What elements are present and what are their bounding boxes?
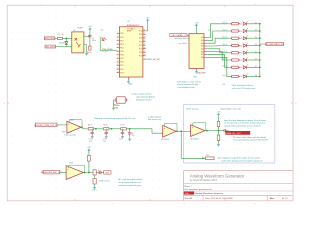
svg-text:high impedance copy of the out: high impedance copy of the output for me… [218, 157, 260, 160]
capacitor C5v [128, 131, 131, 135]
svg-text:D3: D3 [105, 39, 107, 41]
wire R6 to R7 [109, 128, 120, 130]
svg-text:26: 26 [144, 37, 146, 39]
svg-text:filter cleans it up: filter cleans it up [148, 118, 161, 121]
svg-text:so the op-amp can drive the ou: so the op-amp can drive the output rail-… [224, 122, 265, 125]
svg-text:1N4148: 1N4148 [59, 42, 65, 44]
svg-text:Q3_D: Q3_D [222, 51, 227, 53]
title block outline [184, 170, 293, 172]
svg-text:24: 24 [144, 44, 146, 46]
wire R5 to R6 [94, 128, 104, 130]
svg-text:PWM_INPUT: PWM_INPUT [44, 38, 56, 40]
svg-text:PD4: PD4 [120, 47, 124, 49]
wire to U2 pin [100, 46, 117, 51]
svg-text:PD2: PD2 [120, 69, 124, 71]
svg-text:A8: A8 [201, 56, 203, 59]
svg-text:Rev:: Rev: [270, 198, 275, 200]
svg-text:PD5: PD5 [120, 51, 124, 53]
capacitor C6 [98, 171, 102, 174]
svg-text:PD7: PD7 [120, 58, 124, 60]
title block line3 [184, 194, 293, 196]
svg-text:WAVEFORM_DAC_OUT: WAVEFORM_DAC_OUT [41, 171, 63, 174]
svg-text:bootloader needs it: bootloader needs it [136, 99, 152, 102]
svg-text:Q4_D: Q4_D [222, 44, 227, 46]
global label PWM chain [34, 123, 57, 127]
IC U3 bottom pin [196, 69, 198, 71]
global label PWM_IN [44, 37, 56, 40]
svg-text:23: 23 [144, 47, 146, 49]
svg-text:buffer op-amp: buffer op-amp [65, 135, 76, 137]
ground R13 [93, 186, 96, 189]
svg-text:is not available locally: is not available locally [177, 86, 194, 89]
power +5V U6 [217, 112, 221, 117]
title label red box [184, 192, 194, 195]
svg-text:10n: 10n [132, 135, 135, 137]
wire opto emitter [84, 45, 87, 53]
resistor R13 [93, 178, 96, 184]
svg-text:A7: A7 [201, 53, 203, 56]
svg-text:27: 27 [144, 33, 146, 35]
wire U4A out [82, 128, 88, 130]
output label solid red [225, 131, 250, 135]
svg-text:A4: A4 [201, 45, 203, 48]
op-amp U4A [67, 121, 81, 133]
wire R12 to C6 [96, 172, 98, 174]
wire into U5A [152, 129, 163, 133]
svg-text:10: 10 [117, 64, 119, 66]
svg-text:C4 1n: C4 1n [119, 138, 123, 140]
svg-text:MCP6002: MCP6002 [161, 139, 169, 141]
border tick right [291, 102, 293, 104]
resistor R10 [206, 157, 215, 160]
svg-text:Install a crystal and load: Install a crystal and load [132, 93, 152, 96]
svg-text:PD6: PD6 [120, 55, 124, 57]
svg-text:DC offset trim is done with th: DC offset trim is done with the divider [233, 136, 266, 139]
svg-text:PC817: PC817 [78, 28, 84, 30]
svg-text:caps only if the Arduino: caps only if the Arduino [136, 96, 155, 99]
svg-text:TO_D2: TO_D2 [102, 51, 107, 53]
svg-text:useful when driving external a: useful when driving external amplifier e… [221, 159, 263, 162]
svg-text:ATMEGA328-P: ATMEGA328-P [127, 24, 141, 27]
svg-text:PC3: PC3 [139, 41, 143, 43]
wire fan DAC to LEDs [207, 24, 230, 77]
global label SPI bus [170, 33, 187, 36]
U7A feedback wire [69, 165, 85, 172]
svg-text:A1: A1 [201, 36, 203, 39]
diode D2 [65, 42, 68, 45]
svg-text:XTAL: XTAL [114, 107, 118, 110]
svg-text:Sheet: /: Sheet: / [184, 185, 192, 188]
resistor R8 [217, 121, 220, 127]
wire U6A out [206, 130, 223, 132]
wire lower net [181, 157, 205, 159]
svg-text:resistor network if this part: resistor network if this part [177, 83, 198, 86]
svg-text:Q2_D: Q2_D [222, 58, 227, 60]
wire LED collect vertical [259, 24, 261, 77]
svg-text:ARDUINO_AS_ISP: ARDUINO_AS_ISP [144, 58, 161, 61]
svg-text:by Scott W Harden 2017: by Scott W Harden 2017 [190, 179, 218, 182]
resistor R12 [93, 170, 96, 175]
svg-text:R7 1k: R7 1k [121, 124, 126, 126]
power +5V U2 [146, 17, 150, 22]
wire +5V to U3 [196, 28, 198, 34]
junction A [65, 38, 67, 40]
svg-text:10k: 10k [98, 173, 101, 175]
wire label to U7A [60, 171, 66, 173]
svg-text:Q7_D: Q7_D [222, 22, 227, 24]
resistor R6 [103, 128, 109, 130]
svg-text:LEDs show byte on the bus: LEDs show byte on the bus [232, 84, 254, 87]
svg-text:A3: A3 [201, 42, 203, 45]
svg-text:C3 1n: C3 1n [103, 138, 107, 140]
ground C3 [105, 135, 108, 138]
svg-text:A6: A6 [201, 50, 203, 53]
svg-text:PD1: PD1 [120, 37, 124, 39]
svg-text:Analog Waveform Generator: Analog Waveform Generator [190, 173, 245, 178]
svg-text:Title:: Title: [185, 192, 190, 195]
global label PWM_GND [45, 45, 56, 48]
svg-text:C2 1n: C2 1n [89, 138, 93, 140]
svg-text:ARDUINO_PWM_OUT_D5: ARDUINO_PWM_OUT_D5 [34, 124, 57, 127]
capacitor C5 [222, 129, 226, 132]
capacitor C1 [88, 34, 91, 38]
svg-text:R-2R ladder in a chip. Use the: R-2R ladder in a chip. Use the [177, 81, 201, 84]
svg-text:PC6: PC6 [139, 52, 143, 54]
ground crystal [112, 107, 115, 110]
IC U2 body [119, 27, 142, 77]
wire U5A out to U6A [177, 130, 191, 132]
sheet border frame [7, 5, 293, 201]
svg-text:A5: A5 [201, 48, 203, 51]
ground C2 [91, 135, 94, 138]
svg-text:220: 220 [239, 38, 242, 40]
global label LED sum [265, 42, 285, 46]
ground opto emitter [85, 52, 88, 55]
title row divider [184, 190, 293, 192]
svg-text:220: 220 [239, 67, 242, 69]
wire opto collector [84, 35, 90, 37]
capacitor C4v [121, 131, 124, 135]
svg-text:cleanly without distortion at: cleanly without distortion at the extrem… [224, 124, 261, 127]
svg-text:waveform swings both ways: waveform swings both ways [118, 184, 140, 187]
capacitor C2 [91, 131, 94, 135]
svg-text:Q5_D: Q5_D [222, 37, 227, 39]
svg-text:22: 22 [144, 51, 146, 53]
svg-text:GND ref 2.5V: GND ref 2.5V [99, 180, 110, 183]
svg-text:Buffer op-amp: Buffer op-amp [186, 108, 198, 111]
svg-text:PD0: PD0 [120, 33, 124, 35]
IC U2 right pins [139, 30, 146, 58]
svg-text:MCP6002: MCP6002 [191, 139, 199, 141]
resistor R4 [89, 46, 91, 50]
op-amp U6A [191, 125, 205, 137]
svg-text:12: 12 [117, 71, 119, 73]
svg-text:Id: 1/1: Id: 1/1 [282, 198, 288, 200]
svg-text:DAC0808: DAC0808 [197, 71, 205, 74]
power +5V U3 [195, 22, 199, 27]
wire R7 to U5A [126, 128, 152, 130]
crystal Y1 [117, 97, 126, 103]
svg-text:R3: R3 [58, 34, 60, 36]
IC U2 bottom pin [128, 77, 130, 80]
svg-text:see table 3: see table 3 [178, 42, 187, 45]
svg-text:network formed by resistors R8: network formed by resistors R8 and R9 [233, 139, 269, 142]
svg-text:C10 1u: C10 1u [92, 189, 97, 191]
svg-text:PD1: PD1 [120, 65, 124, 67]
svg-text:28: 28 [144, 30, 146, 32]
svg-text:220: 220 [239, 31, 242, 33]
svg-text:R5 1k: R5 1k [88, 124, 93, 126]
IC U3 right pins [201, 36, 206, 59]
svg-text:ANALOG_OUT: ANALOG_OUT [226, 132, 241, 135]
wire D2 to lower net [56, 44, 67, 46]
border tick left [7, 102, 9, 104]
crystal wires [114, 100, 116, 105]
svg-text:the op-amp at mid-rail so the: the op-amp at mid-rail so the [118, 181, 141, 184]
svg-text:Q0_D: Q0_D [222, 75, 227, 77]
U5A feedback wire [165, 123, 177, 131]
global label line out [104, 171, 111, 175]
wire junction to D2 [65, 38, 67, 41]
svg-text:25: 25 [144, 40, 146, 42]
optocoupler U1 [72, 32, 84, 53]
svg-text:PC4: PC4 [139, 45, 143, 47]
svg-text:C8: C8 [132, 133, 134, 135]
resistor R7 [121, 128, 127, 130]
ground C5v [128, 138, 131, 141]
wire column2 [99, 37, 101, 46]
power +5V U7 [87, 147, 91, 152]
wire label to U3 [187, 35, 189, 37]
svg-text:102: 102 [103, 141, 106, 143]
IC U3 left pin [187, 35, 189, 37]
svg-text:Damping resistors keep ringing: Damping resistors keep ringing off the D… [94, 117, 135, 120]
svg-text:PD3: PD3 [120, 44, 124, 46]
ground R9 [217, 143, 220, 146]
wire C5 to out label [227, 130, 229, 132]
resistor R11 [88, 155, 91, 161]
resistor R3 [57, 37, 62, 39]
svg-text:Size: A4: Size: A4 [184, 197, 192, 200]
svg-text:Q6_D: Q6_D [222, 29, 227, 31]
ground C4 [121, 135, 124, 138]
ground U3 [195, 70, 198, 73]
svg-text:and act as R-2R sanity check: and act as R-2R sanity check [232, 87, 255, 90]
wire label to U4A [57, 124, 67, 126]
notes box [184, 105, 275, 163]
svg-text:keep the load impedance above: keep the load impedance above 1k at all … [224, 119, 266, 122]
svg-text:MCP: MCP [62, 132, 66, 134]
svg-text:220: 220 [239, 60, 242, 62]
svg-text:PC5: PC5 [139, 48, 143, 50]
svg-text:R10: R10 [206, 155, 209, 157]
svg-text:clipping begins near rails: clipping begins near rails [220, 108, 241, 111]
op-amp U5A [163, 125, 176, 137]
svg-text:220: 220 [239, 45, 242, 47]
svg-text:Date: 2017-05-21 9:06:04 PM: Date: 2017-05-21 9:06:04 PM [205, 197, 233, 200]
wire collect to label [260, 43, 266, 45]
wire down to lower net [180, 131, 182, 158]
svg-text:PD0: PD0 [120, 62, 124, 64]
IC U2 left pins [117, 32, 124, 74]
wire lower to opto [66, 46, 72, 48]
border ticks top [74, 5, 76, 7]
IC U3 body [189, 34, 204, 69]
global label audio in [41, 170, 63, 174]
svg-text:220: 220 [239, 53, 242, 55]
svg-text:U2: U2 [127, 21, 129, 23]
title block line2 [184, 182, 293, 184]
border ticks bottom [74, 199, 76, 201]
svg-text:PD2: PD2 [120, 40, 124, 42]
svg-text:PC1: PC1 [139, 34, 143, 36]
svg-text:A2: A2 [201, 39, 203, 42]
svg-text:220: 220 [239, 76, 242, 78]
diode D3 marks [102, 38, 105, 41]
svg-text:data lines from U2: data lines from U2 [175, 37, 190, 40]
wire label to R3 [55, 37, 58, 39]
svg-text:LED_BARGRAPH_BUS: LED_BARGRAPH_BUS [265, 43, 285, 46]
svg-text:R6 1k: R6 1k [103, 124, 108, 126]
svg-text:AC couple the output and bias: AC couple the output and bias [118, 178, 142, 181]
svg-text:11: 11 [117, 68, 119, 70]
wire U2 vcc [146, 23, 148, 31]
svg-text:U1: U1 [73, 30, 75, 32]
svg-text:PC2: PC2 [139, 38, 143, 40]
wire U7A out [84, 172, 92, 174]
svg-text:Q1_D: Q1_D [222, 66, 227, 68]
resistor R9 [217, 135, 220, 141]
wire C6 to label [103, 172, 104, 174]
grid dots [8, 6, 293, 201]
svg-text:PC7: PC7 [139, 56, 143, 58]
wire R3 to opto [62, 37, 71, 39]
svg-text:DAC_DATA[0..7]: DAC_DATA[0..7] [172, 34, 186, 37]
svg-text:GND_INPUT: GND_INPUT [45, 46, 56, 48]
op-amp U7A [66, 166, 83, 180]
svg-text:100n: 100n [92, 40, 96, 42]
svg-text:220: 220 [239, 24, 242, 26]
U4A feedback wire [69, 120, 82, 128]
power +5V opto [88, 26, 92, 31]
svg-text:PC0: PC0 [139, 31, 143, 33]
svg-text:Analog Waveform Generator: Analog Waveform Generator [195, 192, 223, 195]
wire +5V to cap [89, 31, 91, 35]
wire cap to R4 [89, 39, 91, 47]
svg-text:AREF: AREF [127, 30, 132, 33]
resistor R5 [88, 128, 94, 130]
LED ladder rows (R and LED per row) [222, 21, 260, 78]
capacitor C3 [105, 131, 108, 135]
U6A feedback wire [193, 123, 206, 131]
title block divider [266, 195, 268, 201]
svg-text:1k: 1k [62, 34, 64, 36]
svg-text:21: 21 [144, 54, 146, 56]
svg-text:102: 102 [89, 141, 92, 143]
svg-text:PD3: PD3 [120, 72, 124, 74]
